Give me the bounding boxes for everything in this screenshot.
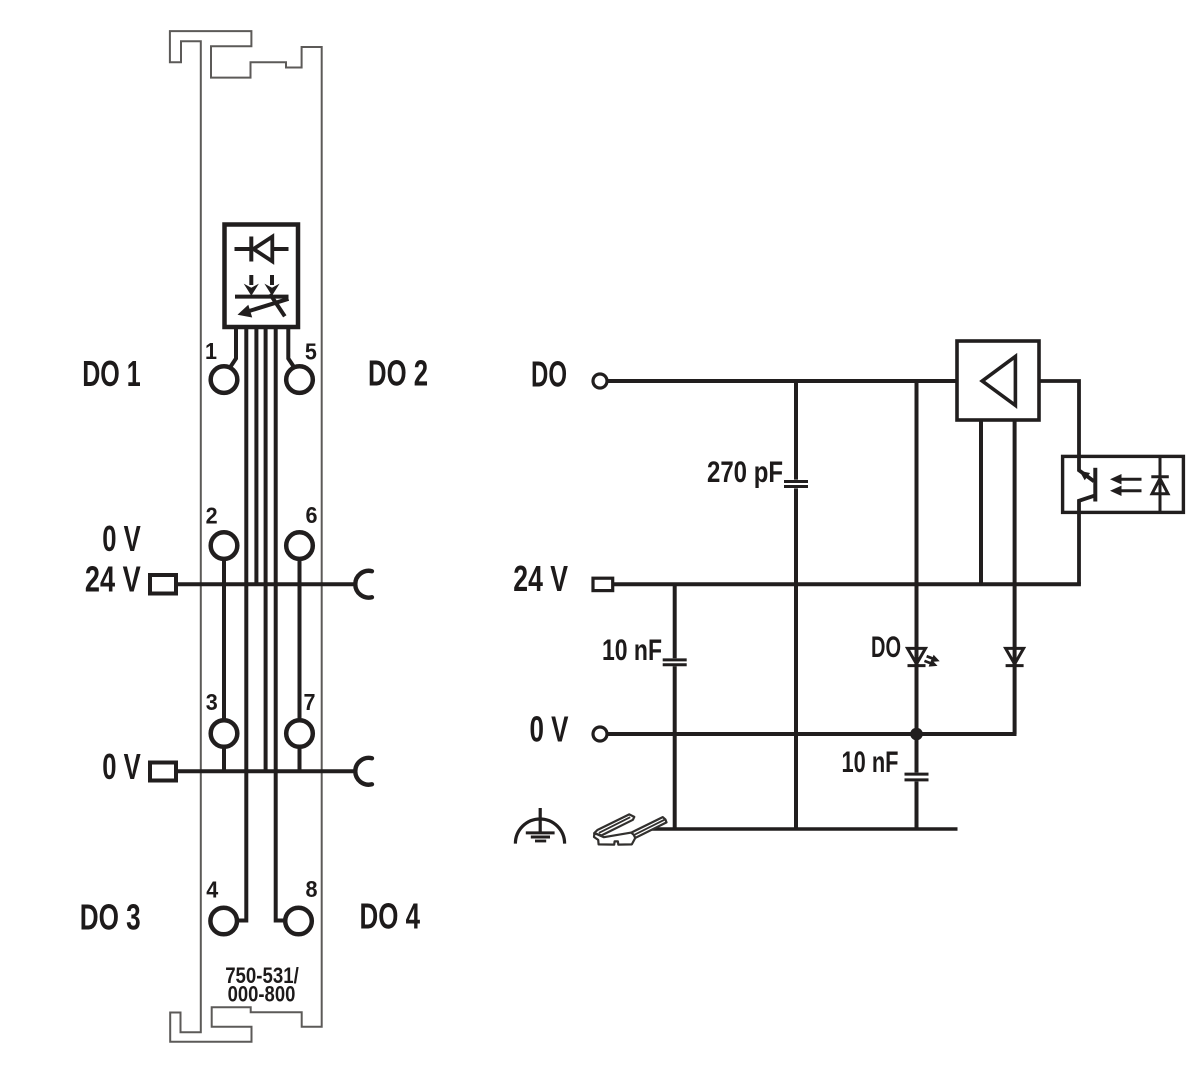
svg-text:DO 1: DO 1: [82, 353, 141, 394]
svg-text:0 V: 0 V: [102, 746, 141, 787]
svg-text:DO 3: DO 3: [80, 897, 141, 938]
svg-text:000-800: 000-800: [228, 982, 296, 1007]
svg-text:2: 2: [206, 503, 218, 529]
svg-text:10 nF: 10 nF: [602, 634, 662, 667]
svg-text:5: 5: [305, 338, 317, 364]
svg-text:3: 3: [206, 689, 218, 715]
svg-text:24 V: 24 V: [513, 558, 568, 599]
svg-text:270 pF: 270 pF: [707, 456, 783, 489]
svg-text:10 nF: 10 nF: [842, 746, 899, 779]
svg-text:24 V: 24 V: [85, 559, 141, 600]
svg-text:DO 4: DO 4: [360, 896, 421, 937]
svg-text:8: 8: [306, 876, 318, 902]
svg-text:1: 1: [205, 338, 217, 364]
svg-text:DO: DO: [871, 631, 901, 664]
svg-text:6: 6: [306, 502, 318, 528]
svg-text:DO 2: DO 2: [368, 353, 428, 394]
svg-text:4: 4: [206, 877, 218, 903]
svg-text:0 V: 0 V: [102, 518, 141, 559]
svg-text:7: 7: [304, 689, 316, 715]
svg-text:0 V: 0 V: [530, 709, 569, 750]
svg-text:DO: DO: [531, 354, 567, 395]
